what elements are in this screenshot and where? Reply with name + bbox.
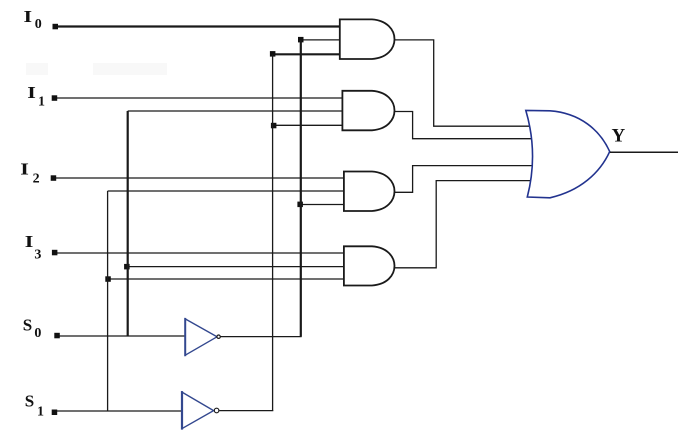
wire I2 [56, 177, 345, 179]
terminal dot I1 [52, 95, 58, 101]
inverter U2 (S1 NOT gate) [182, 391, 219, 430]
wire gate2 output to or-gate [394, 112, 532, 139]
wire gate3 output to or-gate [395, 166, 533, 193]
svg-text:0: 0 [35, 17, 42, 32]
input label I0 [24, 8, 42, 32]
and-gate A4 [344, 246, 395, 285]
input label S1 [25, 392, 44, 420]
faint smudge right [93, 63, 167, 75]
svg-text:Y: Y [612, 126, 626, 147]
wire S0 [59, 335, 186, 337]
svg-text:3: 3 [34, 247, 41, 262]
and-gate A2 [342, 91, 394, 131]
terminal dot I3 [52, 250, 58, 256]
wire gate4 middle input (S0) [127, 266, 345, 268]
terminal dot I2 [51, 175, 57, 181]
wire gate4 output to or-gate [394, 181, 531, 268]
wire gate3 middle input (S1) [108, 190, 345, 192]
wire vertical V4 (S0 inverted to gate1 and gate3) [300, 40, 302, 337]
wire I3 [57, 252, 345, 254]
wire gate2 bottom input (S1 inverted) [273, 124, 343, 126]
wire gate1 middle input (S0 inverted) [301, 39, 340, 41]
wire gate4 bottom input (S1) [108, 278, 345, 280]
terminal dot S1 [52, 410, 58, 416]
wire S1 [57, 410, 183, 412]
wire or-gate output Y [610, 151, 678, 153]
input label I1 [27, 83, 45, 109]
wire S0 inverter output [220, 336, 302, 338]
terminal dot S0 [54, 333, 60, 339]
svg-text:S: S [25, 392, 34, 411]
svg-text:1: 1 [37, 404, 44, 419]
junction dot V1 gate4 tap [105, 276, 111, 282]
wire I0 [57, 25, 340, 27]
wire gate1 bottom input (S1 inverted) [273, 53, 340, 55]
junction dot V2 gate4 tap [124, 264, 130, 270]
input label I2 [20, 160, 39, 187]
wire gate1 output to or-gate [395, 40, 531, 126]
wire vertical V2 (S0 to gate2 and gate4) [127, 111, 129, 336]
inverter U1 (S0 NOT gate) [185, 318, 220, 356]
and-gate A3 [344, 172, 395, 212]
svg-text:S: S [23, 315, 32, 334]
svg-text:I: I [25, 232, 34, 251]
wire gate2 middle input (S0) [128, 110, 343, 112]
svg-text:2: 2 [33, 172, 40, 187]
terminal dot I0 [53, 24, 59, 30]
svg-text:I: I [27, 83, 36, 102]
wire S1 inverter output [220, 410, 274, 412]
wire I1 [57, 97, 343, 99]
svg-text:I: I [20, 160, 29, 179]
wire vertical V1 (S1 to gate3 and gate4) [107, 191, 109, 411]
or-gate U3 [526, 110, 610, 197]
svg-text:1: 1 [38, 94, 45, 109]
input label I3 [25, 232, 42, 262]
input label S0 [23, 315, 42, 340]
junction dot V3 gate2 tap [271, 123, 277, 129]
and-gate A1 [340, 19, 395, 59]
junction dot V4 gate3 tap [297, 202, 303, 208]
faint smudge left [26, 63, 48, 75]
wire vertical V3 (S1 inverted to gate1 and gate2) [272, 54, 274, 410]
svg-text:0: 0 [34, 326, 41, 341]
junction dot V3 top [270, 51, 276, 57]
svg-text:I: I [24, 8, 33, 27]
wire gate3 bottom input (S0 inverted) [300, 204, 344, 206]
junction dot V4 top [298, 37, 304, 43]
